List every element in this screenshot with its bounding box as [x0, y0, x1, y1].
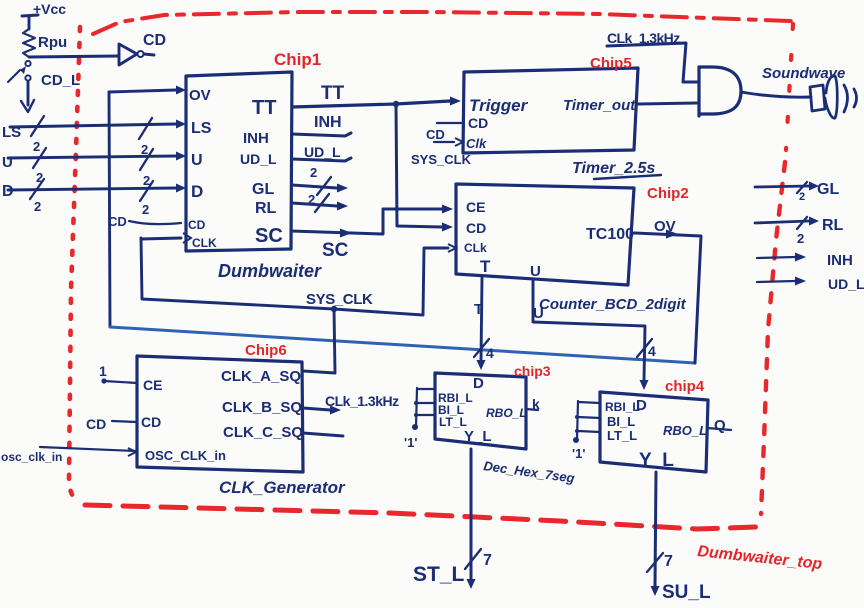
- svg-text:CD: CD: [188, 218, 206, 232]
- svg-text:7: 7: [483, 552, 492, 569]
- svg-text:CE: CE: [143, 377, 162, 393]
- svg-text:'1': '1': [572, 446, 585, 461]
- svg-text:7: 7: [664, 553, 673, 570]
- svg-text:SYS_CLK: SYS_CLK: [411, 152, 472, 167]
- svg-text:RBI_L: RBI_L: [605, 400, 640, 414]
- svg-text:2: 2: [797, 231, 804, 246]
- svg-text:osc_clk_in: osc_clk_in: [1, 450, 62, 464]
- svg-text:U: U: [191, 152, 203, 169]
- svg-text:CD: CD: [426, 127, 445, 142]
- svg-text:2: 2: [308, 192, 315, 207]
- svg-text:D: D: [191, 182, 203, 201]
- svg-text:CD: CD: [466, 220, 486, 236]
- svg-text:Timer_out: Timer_out: [563, 97, 636, 114]
- svg-text:CD: CD: [141, 414, 161, 430]
- svg-text:2: 2: [310, 165, 317, 180]
- svg-text:2: 2: [33, 139, 40, 154]
- svg-text:2: 2: [36, 170, 43, 185]
- svg-text:U: U: [533, 305, 544, 322]
- svg-text:TT: TT: [321, 83, 345, 104]
- svg-text:CLK_B_SQ: CLK_B_SQ: [222, 399, 302, 416]
- svg-text:Q: Q: [714, 417, 726, 434]
- svg-text:2: 2: [799, 191, 805, 203]
- svg-text:CD: CD: [108, 214, 127, 229]
- svg-text:ST_L: ST_L: [413, 563, 465, 586]
- svg-text:CLK_A_SQ: CLK_A_SQ: [221, 368, 301, 385]
- svg-text:CLK_Generator: CLK_Generator: [219, 478, 346, 497]
- svg-text:D: D: [473, 375, 484, 392]
- svg-text:UD_L: UD_L: [240, 151, 277, 167]
- svg-text:CLK: CLK: [192, 236, 217, 250]
- svg-text:TC100: TC100: [586, 226, 634, 243]
- svg-text:k: k: [532, 396, 540, 412]
- svg-text:CLk_1.3kHz: CLk_1.3kHz: [325, 393, 399, 409]
- svg-text:GL: GL: [817, 181, 839, 198]
- svg-text:2: 2: [142, 202, 149, 217]
- svg-text:Soundwave: Soundwave: [762, 65, 845, 82]
- svg-text:T: T: [480, 257, 491, 276]
- svg-text:chip3: chip3: [514, 363, 551, 379]
- svg-text:T: T: [474, 301, 483, 318]
- svg-text:Chip2: Chip2: [647, 185, 689, 202]
- svg-text:RL: RL: [255, 200, 277, 217]
- svg-text:Y_L: Y_L: [639, 450, 674, 471]
- svg-text:4: 4: [486, 345, 494, 361]
- svg-text:4: 4: [648, 343, 656, 359]
- svg-text:OV: OV: [189, 87, 211, 104]
- svg-text:CD: CD: [468, 115, 488, 131]
- svg-text:INH: INH: [314, 114, 342, 131]
- svg-text:'1': '1': [404, 435, 417, 450]
- svg-text:SYS_CLK: SYS_CLK: [306, 291, 373, 308]
- svg-text:CD_L: CD_L: [41, 72, 80, 89]
- svg-text:TT: TT: [252, 97, 276, 119]
- svg-text:1: 1: [99, 363, 107, 379]
- svg-text:LS: LS: [191, 120, 212, 137]
- svg-text:Timer_2.5s: Timer_2.5s: [572, 160, 655, 177]
- svg-text:+Vcc: +Vcc: [33, 1, 66, 17]
- svg-text:LT_L: LT_L: [439, 415, 467, 429]
- svg-text:RL: RL: [822, 217, 844, 234]
- svg-text:Dumbwaiter: Dumbwaiter: [218, 261, 322, 281]
- svg-text:Chip6: Chip6: [245, 342, 287, 359]
- svg-text:BI_L: BI_L: [607, 414, 635, 429]
- svg-text:UD_L: UD_L: [304, 144, 341, 160]
- svg-text:Counter_BCD_2digit: Counter_BCD_2digit: [539, 296, 687, 313]
- svg-text:UD_L: UD_L: [828, 276, 864, 292]
- svg-text:CD: CD: [143, 32, 166, 49]
- svg-text:CLk: CLk: [464, 241, 487, 255]
- svg-text:OSC_CLK_in: OSC_CLK_in: [145, 448, 226, 463]
- svg-text:2: 2: [143, 173, 150, 188]
- svg-text:Y_L: Y_L: [464, 428, 492, 445]
- svg-text:LT_L: LT_L: [607, 428, 637, 443]
- svg-text:LS: LS: [2, 124, 21, 141]
- svg-text:Trigger: Trigger: [469, 96, 529, 115]
- svg-text:SC: SC: [322, 240, 349, 261]
- svg-text:SU_L: SU_L: [662, 582, 711, 603]
- svg-text:RBO_L: RBO_L: [663, 423, 707, 438]
- svg-text:Rpu: Rpu: [38, 34, 67, 51]
- svg-text:OV: OV: [654, 218, 676, 235]
- svg-text:RBO_L: RBO_L: [486, 406, 527, 420]
- svg-text:GL: GL: [252, 181, 274, 198]
- svg-text:CLk_1.3kHz: CLk_1.3kHz: [607, 30, 680, 46]
- svg-text:SC: SC: [255, 225, 283, 247]
- svg-text:Clk: Clk: [466, 136, 487, 151]
- svg-text:INH: INH: [827, 252, 853, 269]
- svg-text:Chip5: Chip5: [590, 55, 632, 72]
- svg-text:CLK_C_SQ: CLK_C_SQ: [223, 424, 303, 441]
- svg-text:chip4: chip4: [665, 378, 705, 395]
- svg-text:Chip1: Chip1: [274, 50, 321, 69]
- svg-text:INH: INH: [243, 130, 269, 147]
- svg-text:U: U: [2, 154, 13, 171]
- svg-text:D: D: [636, 397, 647, 414]
- svg-text:D: D: [2, 183, 14, 200]
- svg-text:2: 2: [141, 142, 148, 157]
- svg-text:CE: CE: [466, 199, 485, 215]
- svg-text:CD: CD: [86, 416, 106, 432]
- svg-text:2: 2: [34, 199, 41, 214]
- svg-text:U: U: [530, 263, 541, 280]
